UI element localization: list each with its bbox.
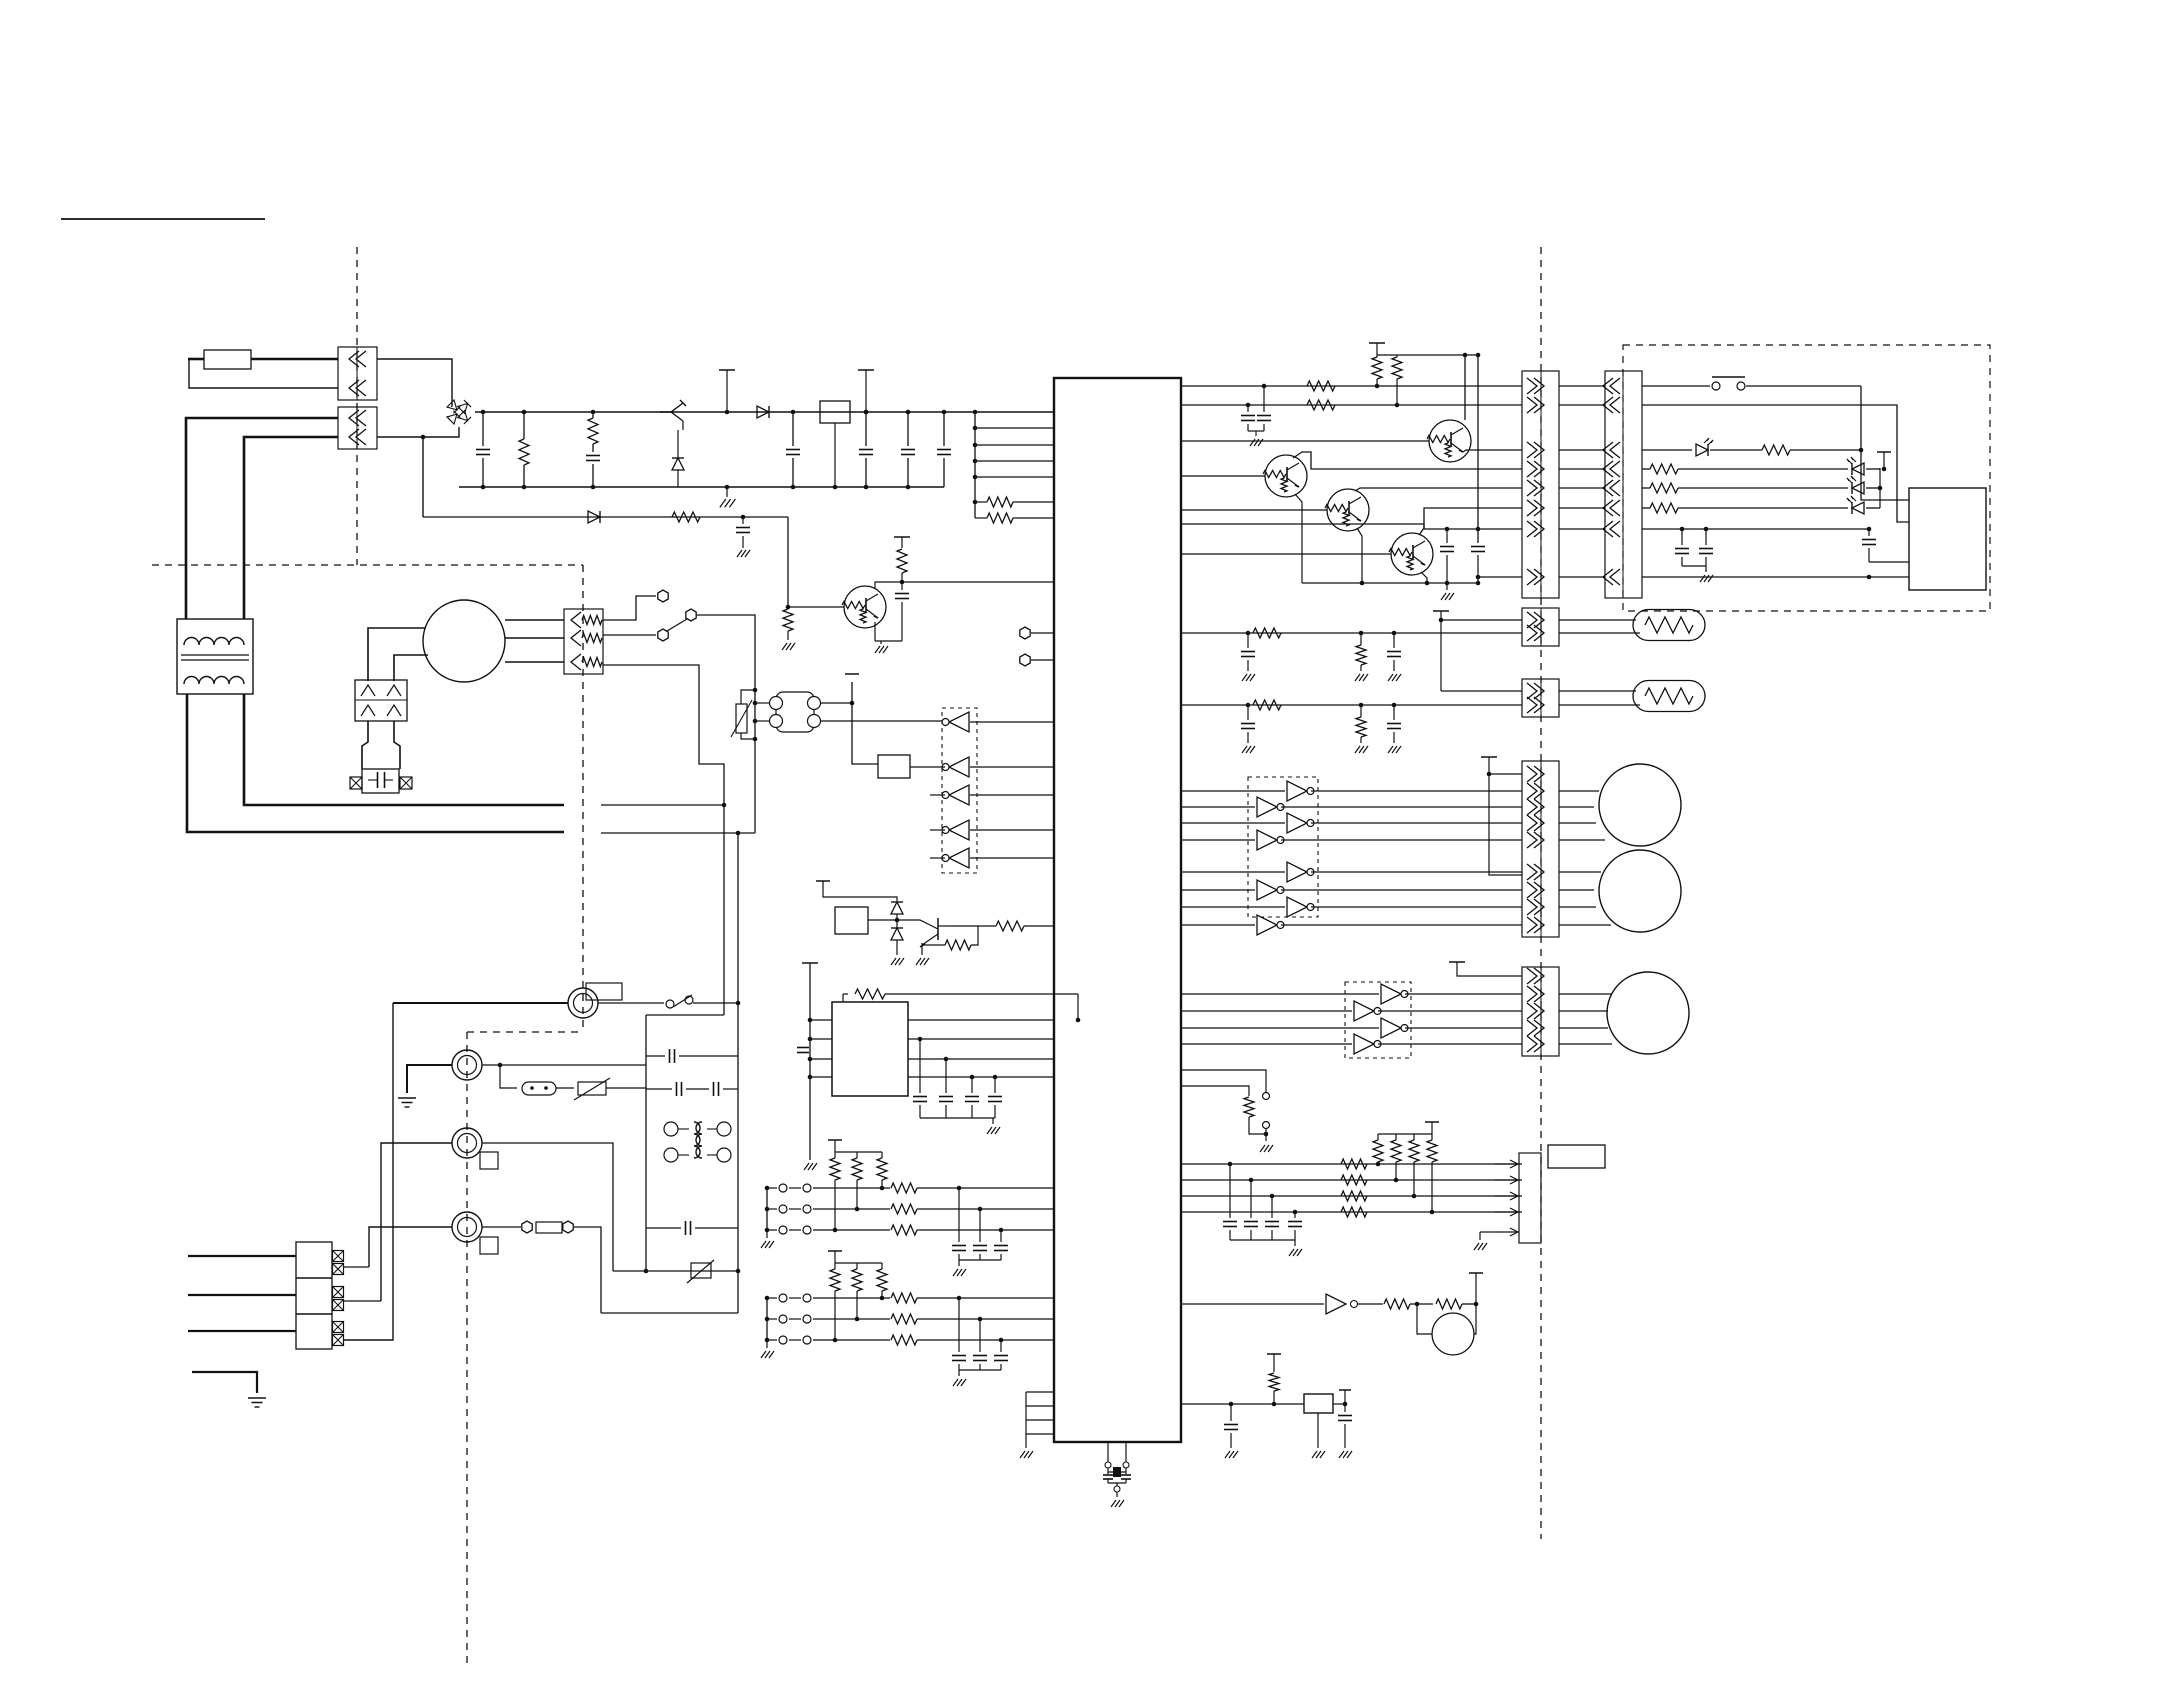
tuner block bottom bbox=[601, 1312, 738, 1314]
diode D4 bbox=[588, 511, 600, 523]
motor drive line 2 bbox=[1181, 1043, 1352, 1045]
pullup rail bbox=[1369, 342, 1385, 344]
sub power line bbox=[423, 516, 788, 518]
test point reset bbox=[1267, 1353, 1281, 1355]
switch row bbox=[767, 1187, 777, 1189]
resistor R18 bbox=[1253, 628, 1281, 638]
capacitor C3 bbox=[791, 410, 796, 415]
resistor R8 bbox=[945, 940, 971, 950]
motor drive line bbox=[1181, 806, 1255, 808]
wire Q5 collector bbox=[1293, 452, 1522, 469]
resistor R2 capacitor C2 bbox=[591, 410, 596, 415]
dashed boundary horizontal bbox=[152, 564, 583, 566]
fuse F2 with pins bbox=[482, 1226, 521, 1228]
LED D8 bbox=[1642, 449, 1692, 451]
PLL left pin bbox=[810, 1076, 832, 1078]
left rail PLL bbox=[802, 962, 818, 964]
row 508 resistor R17 LED D11 bbox=[1642, 507, 1650, 509]
wire J4 to tuner bbox=[574, 1227, 601, 1313]
wire Q6 collector bbox=[1355, 488, 1522, 491]
motor drive line bbox=[1181, 924, 1255, 926]
jack J3 bbox=[452, 1128, 482, 1158]
ladder resistor bbox=[834, 1152, 836, 1158]
wire inverter input bbox=[970, 857, 1054, 859]
capacitor C8 bbox=[797, 1047, 809, 1049]
ant jumper 2 bbox=[344, 1300, 381, 1302]
inverter G5 bbox=[949, 848, 969, 868]
relay RY1 varistor bbox=[736, 704, 747, 733]
inverter G2 bbox=[949, 757, 969, 777]
inverter G3 bbox=[949, 785, 969, 805]
wire cap row bbox=[1424, 528, 1522, 530]
ground CN10 bbox=[1480, 1231, 1495, 1233]
ground muting bbox=[896, 940, 898, 955]
wire jack feed 2 bbox=[601, 832, 755, 834]
ground power rail bbox=[726, 487, 728, 497]
wire motor to connector 2 bbox=[505, 637, 564, 639]
wire bridge to cap block bbox=[362, 721, 368, 769]
X terminal right bbox=[400, 777, 412, 789]
motor M2 reel bbox=[1599, 764, 1681, 846]
PLL left pin bbox=[810, 1058, 832, 1060]
transistor Q2 bbox=[844, 586, 886, 628]
tuner cap C14 bbox=[646, 1088, 672, 1090]
transistor Q5 bbox=[1265, 455, 1307, 497]
tuner cap C15 bbox=[686, 1088, 709, 1090]
connector CN2 AC out bbox=[338, 407, 377, 449]
motor M1 capstan bbox=[423, 600, 505, 682]
test point buzzer bbox=[1469, 1272, 1483, 1274]
B+ rail bbox=[475, 411, 1054, 413]
filter caps bbox=[958, 1298, 960, 1352]
line uP to CN4 row2 bbox=[1181, 404, 1522, 406]
capacitor C7 bbox=[741, 515, 746, 520]
wire row2 to sensor bbox=[1642, 405, 1909, 522]
wire Q4 emitter bbox=[1463, 450, 1522, 452]
wire motor left 1 bbox=[368, 628, 425, 681]
label box CN10 bbox=[1548, 1145, 1605, 1168]
diode D3 bbox=[757, 406, 769, 418]
resistor R4 bbox=[975, 517, 987, 519]
resistor R20 bbox=[1253, 700, 1281, 710]
resistor R11 bbox=[1307, 400, 1335, 410]
ground reset IC bbox=[1317, 1413, 1319, 1448]
capacitor C23 bbox=[1333, 1403, 1345, 1405]
wire inverter input bbox=[970, 829, 1054, 831]
wire J1 switch bbox=[598, 1002, 664, 1004]
FM block right vertical bbox=[737, 833, 739, 975]
lamp line from uP bbox=[1181, 632, 1522, 634]
wire motor left 2 bbox=[394, 655, 428, 681]
wire motor to connector 1 bbox=[505, 619, 564, 621]
dashed boundary line bottom bbox=[466, 1032, 468, 1669]
wire Q6 base bbox=[1181, 509, 1327, 511]
ladder resistor bbox=[834, 1263, 836, 1269]
dashed boundary line mid bbox=[582, 565, 584, 1032]
ladder resistor bbox=[881, 1263, 883, 1269]
test point motor 2 bbox=[1449, 961, 1465, 963]
ground emitter rail bbox=[1446, 583, 1448, 590]
wire motor to connector 3 bbox=[505, 661, 564, 663]
LED common rail bbox=[1879, 468, 1881, 508]
capacitor C1 bbox=[481, 410, 486, 415]
dashed boundary line left top bbox=[356, 247, 358, 565]
wire mains neutral bbox=[244, 437, 338, 619]
test point lamp bbox=[1433, 610, 1449, 612]
ladder resistor bbox=[856, 1263, 858, 1269]
Q2 emitter ground bbox=[874, 622, 876, 641]
resistor R23 bbox=[1436, 1299, 1462, 1309]
test point motor bbox=[1481, 756, 1497, 758]
lamp L2 bbox=[1441, 690, 1522, 692]
wire Q7 collector bbox=[1419, 508, 1522, 535]
motor capacitor block bbox=[362, 769, 399, 793]
lower power rail bbox=[459, 486, 944, 488]
filter caps bbox=[958, 1188, 960, 1242]
mech switch pins bbox=[1181, 1070, 1266, 1092]
cap C21 bbox=[1393, 633, 1395, 648]
switch row bbox=[767, 1339, 777, 1341]
jack J4 bbox=[452, 1212, 482, 1242]
wire Q5 base bbox=[1181, 475, 1265, 477]
motor connector CN8 bbox=[1522, 761, 1559, 937]
resistor R7 bbox=[938, 925, 946, 927]
capacitor C12 bbox=[994, 1077, 996, 1093]
ladder resistor bbox=[856, 1152, 858, 1158]
wire connector to bridge top bbox=[377, 359, 452, 407]
ant jumper 1 bbox=[344, 1266, 369, 1268]
PLL right pins to IC bbox=[908, 1019, 1054, 1021]
relay RY1 coil bbox=[776, 692, 814, 732]
wire J2 right bbox=[482, 1064, 646, 1066]
resistor R19b bbox=[1360, 705, 1362, 717]
wire Q2 to IC bbox=[902, 581, 1054, 583]
motor drive line 2 bbox=[1181, 1010, 1352, 1012]
power switch S2 bbox=[1642, 385, 1710, 387]
remote sensor test point bbox=[1877, 451, 1891, 453]
motor drive line bbox=[1181, 906, 1285, 908]
emitter rail bbox=[1295, 494, 1302, 583]
connector CN4 bbox=[1522, 371, 1559, 598]
resistor ladder top rail bbox=[835, 1262, 882, 1264]
wire bridge bottom to connector bbox=[377, 427, 459, 437]
resistor R14 bbox=[1762, 445, 1790, 455]
tuner block right rail bbox=[737, 975, 739, 1313]
varistor VR3 bbox=[691, 1263, 711, 1278]
antenna terminal block bbox=[296, 1242, 332, 1278]
capacitor C4 bbox=[864, 410, 869, 415]
motor drive line bbox=[1181, 822, 1285, 824]
motor M4 bbox=[1607, 972, 1689, 1054]
terminal pin P1 bbox=[1020, 627, 1030, 639]
varistor row bbox=[613, 1270, 738, 1272]
capacitor C22 bbox=[1230, 1404, 1232, 1421]
wire G3 stub bbox=[930, 794, 945, 796]
motor M3 reel bbox=[1599, 850, 1681, 932]
fuse F1 bbox=[204, 350, 251, 369]
pullup resistor R12 bbox=[1372, 357, 1382, 379]
row 469 resistor R15 LED D9 bbox=[1642, 468, 1650, 470]
tuner cap C16 bbox=[646, 1227, 681, 1229]
row 488 resistor R16 LED D10 bbox=[1642, 487, 1650, 489]
regulator IC2 bbox=[820, 401, 850, 423]
capacitor C17 bbox=[1446, 529, 1448, 543]
motor connector CN9 bbox=[1522, 967, 1559, 1056]
connector CN1 AC bbox=[338, 347, 377, 400]
switch row bbox=[767, 1208, 777, 1210]
series resistors bbox=[1341, 1159, 1367, 1169]
pass transistor Q1 bbox=[660, 403, 683, 412]
resistor R10 bbox=[1307, 381, 1335, 391]
motor drive line bbox=[1181, 871, 1285, 873]
motor drive line bbox=[1181, 790, 1285, 792]
title underline bbox=[61, 218, 265, 220]
pin circle bbox=[1351, 1301, 1358, 1308]
IF transformer T2 bbox=[664, 1122, 678, 1136]
wire inverter input bbox=[970, 766, 1054, 768]
wire transformer secondary 2 bbox=[187, 694, 564, 832]
capacitor C18 bbox=[1477, 355, 1479, 543]
wires CN9 to M4 bbox=[1559, 993, 1612, 995]
dashed boundary jog bbox=[467, 1031, 583, 1033]
connector CN3 motor bbox=[564, 609, 603, 674]
capacitor C11 bbox=[970, 1075, 975, 1080]
wire J1 left bbox=[393, 1002, 568, 1004]
ant jumper 3 bbox=[344, 1003, 393, 1340]
ground Q3 bbox=[921, 945, 923, 955]
reset line bbox=[1181, 1403, 1304, 1405]
muting block bbox=[835, 907, 868, 934]
wire J2 ground bbox=[407, 1065, 452, 1093]
reset IC7 bbox=[1304, 1394, 1333, 1413]
cap C20b bbox=[1247, 705, 1249, 720]
test point T1 bbox=[719, 369, 735, 371]
wire speaker to FM block bbox=[603, 665, 724, 1015]
jack J2 bbox=[452, 1050, 482, 1080]
wire regulator base bbox=[593, 429, 683, 431]
inverter array IC6 dashed box bbox=[1345, 982, 1411, 1058]
relay driver box bbox=[878, 755, 910, 778]
port lines to CN10 bbox=[1181, 1163, 1522, 1165]
cap C20 bbox=[1247, 633, 1249, 648]
resistor R3 bbox=[973, 500, 978, 505]
wire rail row bbox=[1478, 576, 1522, 578]
bridge rectifier D1 bbox=[447, 400, 471, 424]
wire to Q2 base bbox=[788, 517, 844, 607]
resistor R24 bbox=[1269, 1373, 1279, 1391]
resistor R21 bbox=[1181, 1086, 1249, 1096]
wire Q4 base bbox=[1181, 440, 1429, 442]
capacitor C5 bbox=[906, 410, 911, 415]
ant X terminals 1 bbox=[333, 1251, 344, 1262]
capacitor C6 bbox=[942, 410, 947, 415]
varistor VR2 bbox=[556, 1087, 574, 1089]
PLL left pin bbox=[810, 1019, 832, 1021]
wire switch to right bbox=[697, 615, 755, 833]
switch row bbox=[767, 1297, 777, 1299]
zener diode D2 bbox=[677, 412, 679, 440]
wire cap feed bbox=[1181, 524, 1424, 529]
IC U1 system control microprocessor bbox=[1054, 378, 1181, 1442]
switch bus bbox=[766, 1298, 768, 1340]
diode D7 bbox=[891, 928, 903, 940]
resistor R1 bbox=[522, 410, 527, 415]
row 577 wire bbox=[1642, 576, 1909, 578]
motor M5 buzzer bbox=[1432, 1313, 1474, 1355]
motor drive line bbox=[1181, 839, 1255, 841]
lamp L1 bbox=[1559, 619, 1636, 621]
ant X terminals 3 bbox=[333, 1322, 344, 1333]
switch bus bbox=[766, 1188, 768, 1230]
wires CN8 to M2 bbox=[1559, 790, 1599, 792]
port caps bbox=[1229, 1164, 1231, 1218]
lamp line 2 from uP bbox=[1181, 704, 1522, 706]
capacitor C19 bbox=[1867, 527, 1872, 532]
PLL left pin bbox=[810, 1038, 832, 1040]
wire jack feed 1 bbox=[601, 804, 724, 806]
wires CN8 to M3 bbox=[1559, 871, 1601, 873]
uP bottom left pins bbox=[1026, 1391, 1054, 1393]
motor drive line 2 bbox=[1181, 993, 1379, 995]
wire J1 to FM bbox=[693, 1002, 738, 1004]
harness wires CN4-CN5 bbox=[1559, 385, 1605, 387]
transistor Q3 discrete bbox=[897, 920, 938, 929]
resistor R9 top bbox=[842, 994, 844, 1002]
pullup resistors port bbox=[1425, 1121, 1439, 1123]
wire G5 stub bbox=[930, 857, 945, 859]
lamp connector CN7 bbox=[1522, 679, 1559, 717]
remote sensor box bbox=[1909, 488, 1986, 590]
transistor Q7 bbox=[1391, 533, 1433, 575]
resistor R5 bbox=[672, 512, 700, 522]
ant X terminals 2 bbox=[333, 1287, 344, 1298]
resistor R22 bbox=[1384, 1299, 1410, 1309]
wire transformer secondary 1 bbox=[244, 694, 564, 805]
diode D6 bbox=[891, 902, 903, 914]
X terminal left bbox=[350, 777, 362, 789]
wire mains live bbox=[186, 418, 338, 619]
switch row bbox=[767, 1229, 777, 1231]
connector CN5 bbox=[1605, 371, 1642, 598]
cap C21b bbox=[1393, 705, 1395, 720]
connector CN10 bbox=[1519, 1153, 1541, 1243]
ant input wires bbox=[188, 1255, 296, 1257]
capacitor C9 bbox=[918, 1037, 923, 1042]
wire relay left rail bbox=[852, 682, 878, 764]
wire relay to T rail bbox=[821, 702, 852, 704]
wire Q4 collector bbox=[1464, 355, 1466, 420]
ladder resistor bbox=[881, 1152, 883, 1158]
test point T2 bbox=[858, 369, 874, 371]
wire relay to inverter bbox=[821, 720, 945, 722]
line uP to CN4 row1 bbox=[1181, 385, 1522, 387]
speaker switch S1 bbox=[603, 596, 656, 620]
dashed boundary line right bbox=[1540, 247, 1542, 1539]
transistor Q4 bbox=[1429, 420, 1471, 462]
bridge rectifier D5 bbox=[355, 680, 407, 721]
tuner block left rail bbox=[645, 1015, 647, 1271]
cap common ground bbox=[920, 1117, 995, 1119]
lamp connector CN6 bbox=[1522, 608, 1559, 646]
pullup resistor R13 bbox=[1396, 355, 1398, 357]
wire to sub power line bbox=[422, 437, 424, 517]
inverter G4 bbox=[949, 820, 969, 840]
crystal X1 bbox=[1107, 1442, 1109, 1462]
wire Q7 base bbox=[1181, 553, 1391, 555]
wire J3 left to ant bbox=[381, 1143, 452, 1301]
wire J3 right bbox=[482, 1143, 613, 1271]
wire S2 to sensor bbox=[1861, 386, 1909, 500]
chassis ground wire bbox=[192, 1372, 257, 1393]
PLL IC4 bbox=[832, 1002, 908, 1096]
wire AC return bbox=[189, 359, 338, 388]
wire fuse to connector bbox=[251, 358, 338, 361]
inverter array IC3 dashed box bbox=[942, 708, 977, 873]
motor drive line bbox=[1181, 889, 1255, 891]
inverter array IC5 dashed box bbox=[1248, 777, 1318, 917]
ferrite bead FB1 bbox=[500, 1065, 517, 1088]
front panel dashed box bbox=[1623, 345, 1990, 611]
power pin bus bbox=[974, 412, 976, 518]
switch row bbox=[767, 1318, 777, 1320]
decoupling caps rows bbox=[1262, 384, 1267, 389]
wire inverter input bbox=[970, 794, 1054, 796]
terminal pin P2 bbox=[1020, 654, 1030, 666]
inverter G1 bbox=[949, 712, 969, 732]
wire inverter input bbox=[970, 721, 1054, 723]
jack J1 bbox=[568, 988, 598, 1018]
power transformer T1 bbox=[177, 619, 253, 694]
wire J4 left to ant bbox=[369, 1227, 452, 1267]
wire G4 stub bbox=[930, 829, 945, 831]
inverter G6 bbox=[1181, 1303, 1324, 1305]
capacitor C10 bbox=[944, 1057, 949, 1062]
tuner cap C13 bbox=[646, 1055, 665, 1057]
row 529 caps bbox=[1642, 528, 1869, 530]
motor drive line 2 bbox=[1181, 1027, 1379, 1029]
resistor ladder top rail bbox=[835, 1151, 882, 1153]
resistor R19 bbox=[1360, 633, 1362, 645]
wire G2 output bbox=[910, 766, 945, 768]
resistor R6 bbox=[783, 609, 793, 631]
transistor Q6 bbox=[1327, 489, 1369, 531]
Q2 collector network bbox=[875, 582, 902, 589]
